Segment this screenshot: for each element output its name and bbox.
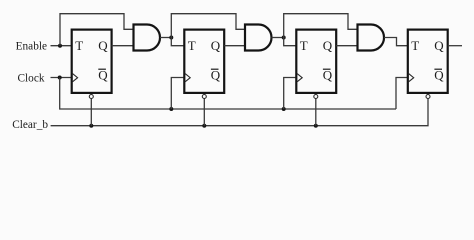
AND gate G3 — [358, 25, 385, 51]
clock wedge U1 — [73, 74, 78, 82]
junction Clear_b at U1 stem — [89, 124, 93, 128]
wire AND1 output to node — [160, 37, 171, 39]
wire clear stem to U2 bubble — [203, 99, 205, 126]
junction Enable node — [58, 44, 62, 48]
wire rail C: AND2 node up and over to AND3 top input — [284, 14, 358, 38]
wire U1.Q to AND1 input — [112, 45, 134, 47]
wire rail A: Enable up and over to AND1 top input — [60, 14, 134, 46]
T flip-flop U1 — [72, 30, 112, 99]
wire clock riser to U2.CLK — [171, 78, 184, 110]
svg-text:Q: Q — [434, 38, 444, 53]
wire AND1 node down to U2.T — [171, 38, 184, 46]
svg-text:T: T — [300, 38, 308, 53]
svg-text:Q: Q — [211, 68, 221, 83]
AND gate G2 — [245, 25, 272, 51]
svg-text:Q: Q — [211, 38, 221, 53]
wire clear stem to U3 bubble — [315, 99, 317, 126]
wire U2.Q to AND2 input — [224, 45, 245, 47]
junction AND1 output node — [169, 36, 173, 40]
svg-text:T: T — [411, 38, 419, 53]
clock wedge U3 — [297, 74, 302, 82]
AND gate G1 — [134, 25, 161, 51]
wire U3.Q to AND3 input — [336, 45, 357, 47]
clock wedge U2 — [185, 74, 190, 82]
wire clock riser to U3.CLK — [284, 78, 297, 110]
clear bubble U2 — [202, 95, 206, 99]
clear bubble U3 — [314, 95, 318, 99]
wire clear stem to U1 bubble — [90, 99, 92, 126]
svg-text:Clock: Clock — [18, 73, 45, 85]
svg-text:T: T — [188, 38, 196, 53]
T flip-flop U3 — [296, 30, 336, 99]
wire clock bus down and across — [60, 78, 396, 110]
junction AND2 output node — [282, 36, 286, 40]
clock wedge U4 — [409, 74, 414, 82]
wire clock riser to U4.CLK — [396, 78, 408, 110]
wire AND2 output to node — [272, 37, 284, 39]
wire Enable to U1.T — [51, 45, 72, 47]
svg-text:Enable: Enable — [16, 41, 47, 53]
wire Clear_b bus across and up to U4 clear bubble — [51, 99, 428, 126]
svg-text:Q: Q — [323, 38, 333, 53]
junction Clear_b at U2 stem — [202, 124, 206, 128]
T flip-flop U4 — [408, 30, 448, 99]
wire AND3 output down to U4.T — [384, 38, 408, 46]
junction Clock node — [58, 76, 62, 80]
junction clock bus at U2 riser — [169, 107, 173, 111]
svg-text:Q: Q — [98, 38, 108, 53]
svg-text:T: T — [75, 38, 83, 53]
T flip-flop U2 — [184, 30, 224, 99]
svg-text:Q: Q — [434, 68, 444, 83]
wire AND2 node down to U3.T — [284, 38, 297, 46]
clear bubble U1 — [89, 95, 93, 99]
wire rail B: AND1 node up and over to AND2 top input — [171, 14, 245, 38]
svg-text:Q: Q — [98, 68, 108, 83]
wire U4.Q output stub — [448, 45, 462, 47]
junction clock bus at U3 riser — [282, 107, 286, 111]
clear bubble U4 — [426, 95, 430, 99]
svg-text:Clear_b: Clear_b — [12, 119, 48, 131]
junction Clear_b at U3 stem — [314, 124, 318, 128]
wire Clock to U1.CLK — [51, 77, 72, 79]
svg-text:Q: Q — [323, 68, 333, 83]
